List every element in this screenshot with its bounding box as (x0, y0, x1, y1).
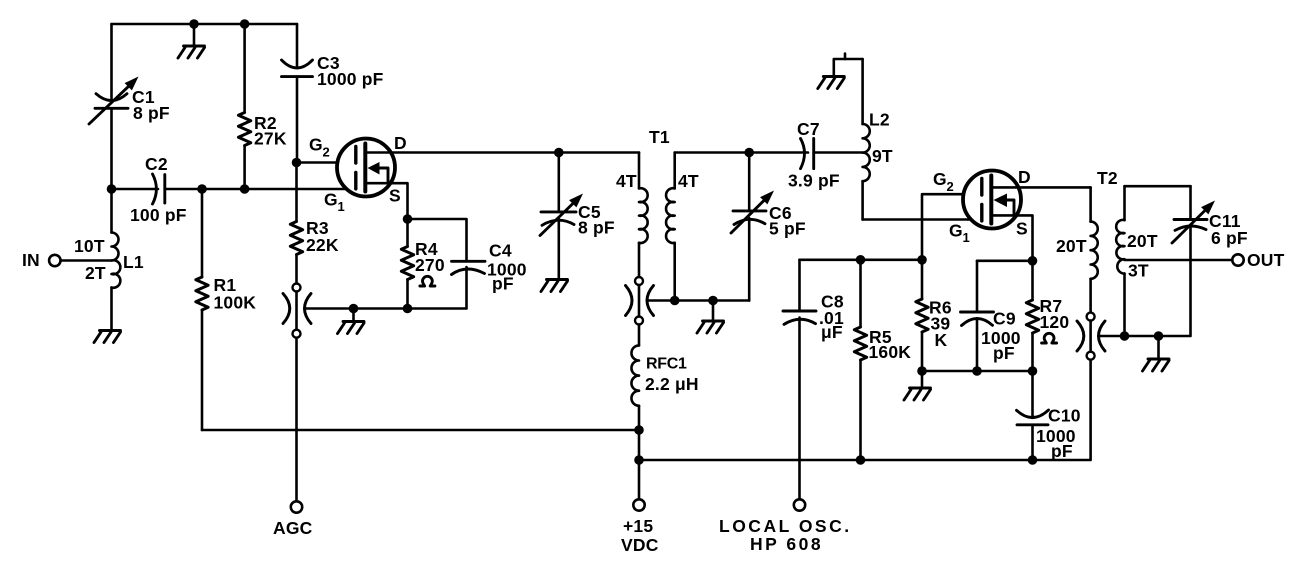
wire L2 to G1 (863, 218, 982, 221)
mosfet Q2 (933, 167, 1091, 261)
svg-text:K: K (935, 330, 948, 350)
svg-text:C10: C10 (1048, 406, 1081, 426)
svg-text:pF: pF (1051, 441, 1073, 461)
capacitor C10 (1017, 371, 1081, 465)
capacitor C8 (783, 260, 844, 499)
resistor R2 (238, 24, 286, 189)
node T1 right bottom (670, 296, 680, 306)
wire top rail (112, 23, 298, 26)
ground T1 row (697, 296, 724, 333)
resistor R4 (401, 219, 445, 309)
wire G2 branch Q2 (922, 194, 982, 299)
svg-text:2.2 μH: 2.2 μH (645, 374, 699, 394)
resistor R1 (196, 189, 256, 430)
terminal +15 VDC (621, 499, 659, 555)
wire S bypass row (305, 307, 408, 310)
terminal IN (22, 250, 112, 270)
node rail-R2 (240, 19, 250, 29)
svg-text:100 pF: 100 pF (130, 205, 187, 225)
svg-text:1000 pF: 1000 pF (317, 69, 384, 89)
svg-text:IN: IN (22, 250, 40, 270)
svg-text:120: 120 (1040, 312, 1070, 332)
wire T2 bottom row (1099, 226, 1191, 336)
svg-text:HP 608: HP 608 (750, 534, 823, 554)
node G2-R6 (917, 255, 927, 265)
transformer T1 (616, 127, 699, 301)
svg-text:L1: L1 (123, 252, 144, 272)
svg-text:G: G (324, 190, 338, 210)
svg-text:4T: 4T (616, 171, 637, 191)
ground S row (338, 304, 365, 334)
ground T2 row (1143, 331, 1170, 371)
terminal OUT (1232, 250, 1284, 270)
svg-text:27K: 27K (254, 129, 287, 149)
capacitor C2 (130, 154, 356, 225)
resistor R7 (1026, 261, 1069, 376)
wire S-C9 row (977, 256, 1037, 266)
resistor R5 (854, 255, 911, 465)
terminal LOCAL OSC (719, 499, 852, 554)
feedthrough capacitor AGC (283, 284, 311, 338)
svg-text:AGC: AGC (273, 518, 313, 538)
ground L2 (818, 54, 863, 89)
capacitor C11 (1172, 186, 1248, 248)
svg-text:LOCAL OSC.: LOCAL OSC. (719, 516, 852, 536)
svg-text:OUT: OUT (1247, 250, 1285, 270)
svg-text:20T: 20T (1056, 236, 1087, 256)
resistor R6 (916, 298, 952, 376)
svg-text:pF: pF (993, 343, 1015, 363)
svg-text:μF: μF (821, 322, 843, 342)
svg-text:T1: T1 (649, 127, 670, 147)
inductor L1 (74, 189, 144, 330)
wire T1 to C7 (675, 151, 808, 154)
svg-text:22K: 22K (306, 235, 339, 255)
node C2-R1 (197, 184, 207, 194)
svg-text:270: 270 (415, 255, 445, 275)
svg-text:L2: L2 (869, 110, 890, 130)
wire bottom bus (639, 360, 1091, 460)
svg-text:VDC: VDC (621, 535, 659, 555)
transformer T2 (1056, 168, 1158, 336)
capacitor C9 (961, 261, 1021, 376)
svg-text:8 pF: 8 pF (133, 103, 170, 123)
svg-text:160K: 160K (869, 342, 912, 362)
inductor RFC1 (631, 325, 698, 500)
wire OUT tap (1125, 259, 1233, 262)
feedthrough capacitor T1 (626, 277, 654, 325)
svg-text:2T: 2T (85, 263, 106, 283)
svg-text:C2: C2 (145, 154, 168, 174)
svg-text:8 pF: 8 pF (578, 218, 615, 238)
svg-text:S: S (1016, 219, 1028, 239)
wire G2 row (292, 158, 356, 168)
terminal AGC (273, 501, 313, 538)
node T2 secondary bottom (1120, 331, 1130, 341)
svg-text:2: 2 (947, 179, 954, 194)
node S-R4 (403, 214, 413, 224)
svg-text:D: D (1018, 167, 1031, 187)
capacitor C3 (282, 24, 384, 163)
svg-text:6 pF: 6 pF (1211, 228, 1248, 248)
ground R6 (904, 371, 931, 400)
feedthrough capacitor T2 (1077, 313, 1105, 360)
mosfet Q1 (309, 133, 639, 219)
wire R1 to RFC1 (202, 429, 639, 432)
svg-text:5 pF: 5 pF (769, 219, 806, 239)
svg-text:1: 1 (338, 199, 345, 214)
wire T1 bottom row (647, 299, 749, 302)
svg-text:100K: 100K (214, 293, 257, 313)
node R4-C4 bottom (403, 304, 413, 314)
node RFC1 bottom (634, 425, 644, 435)
svg-text:T2: T2 (1097, 168, 1118, 188)
inductor L2 (863, 59, 893, 220)
svg-text:4T: 4T (678, 171, 699, 191)
capacitor C6 (731, 153, 806, 301)
ground C5 (541, 280, 568, 292)
wire bias bus (800, 258, 923, 261)
svg-text:9T: 9T (872, 146, 893, 166)
svg-text:S: S (389, 186, 401, 206)
resistor R3 (290, 163, 339, 284)
svg-text:G: G (949, 221, 963, 241)
svg-text:20T: 20T (1127, 231, 1158, 251)
svg-text:RFC1: RFC1 (646, 356, 687, 373)
node bus-RFC1 (634, 455, 644, 465)
capacitor C5 (540, 148, 615, 279)
svg-text:3T: 3T (1128, 261, 1149, 281)
capacitor C7 (788, 119, 863, 191)
svg-text:pF: pF (492, 274, 514, 294)
ground top rail (178, 19, 205, 58)
svg-text:D: D (394, 133, 407, 153)
node C2-R2 (240, 184, 250, 194)
svg-text:C4: C4 (489, 241, 512, 261)
svg-text:C7: C7 (797, 119, 820, 139)
svg-text:2: 2 (323, 145, 330, 160)
svg-text:3.9 pF: 3.9 pF (788, 171, 840, 191)
svg-text:1: 1 (963, 230, 970, 245)
wire AGC vertical (295, 338, 298, 501)
wire G1 row (107, 184, 158, 194)
svg-text:+15: +15 (623, 516, 653, 536)
svg-text:C9: C9 (993, 309, 1016, 329)
svg-text:G: G (933, 169, 947, 189)
wire R6-C9-R7 row (922, 370, 1033, 373)
capacitor C1 (89, 24, 170, 189)
svg-text:10T: 10T (74, 236, 105, 256)
wire T2 top bar (1125, 185, 1191, 188)
svg-text:G: G (309, 135, 323, 155)
node C6 top (744, 148, 754, 158)
capacitor C4 (408, 219, 527, 309)
ground L1 (94, 331, 121, 343)
